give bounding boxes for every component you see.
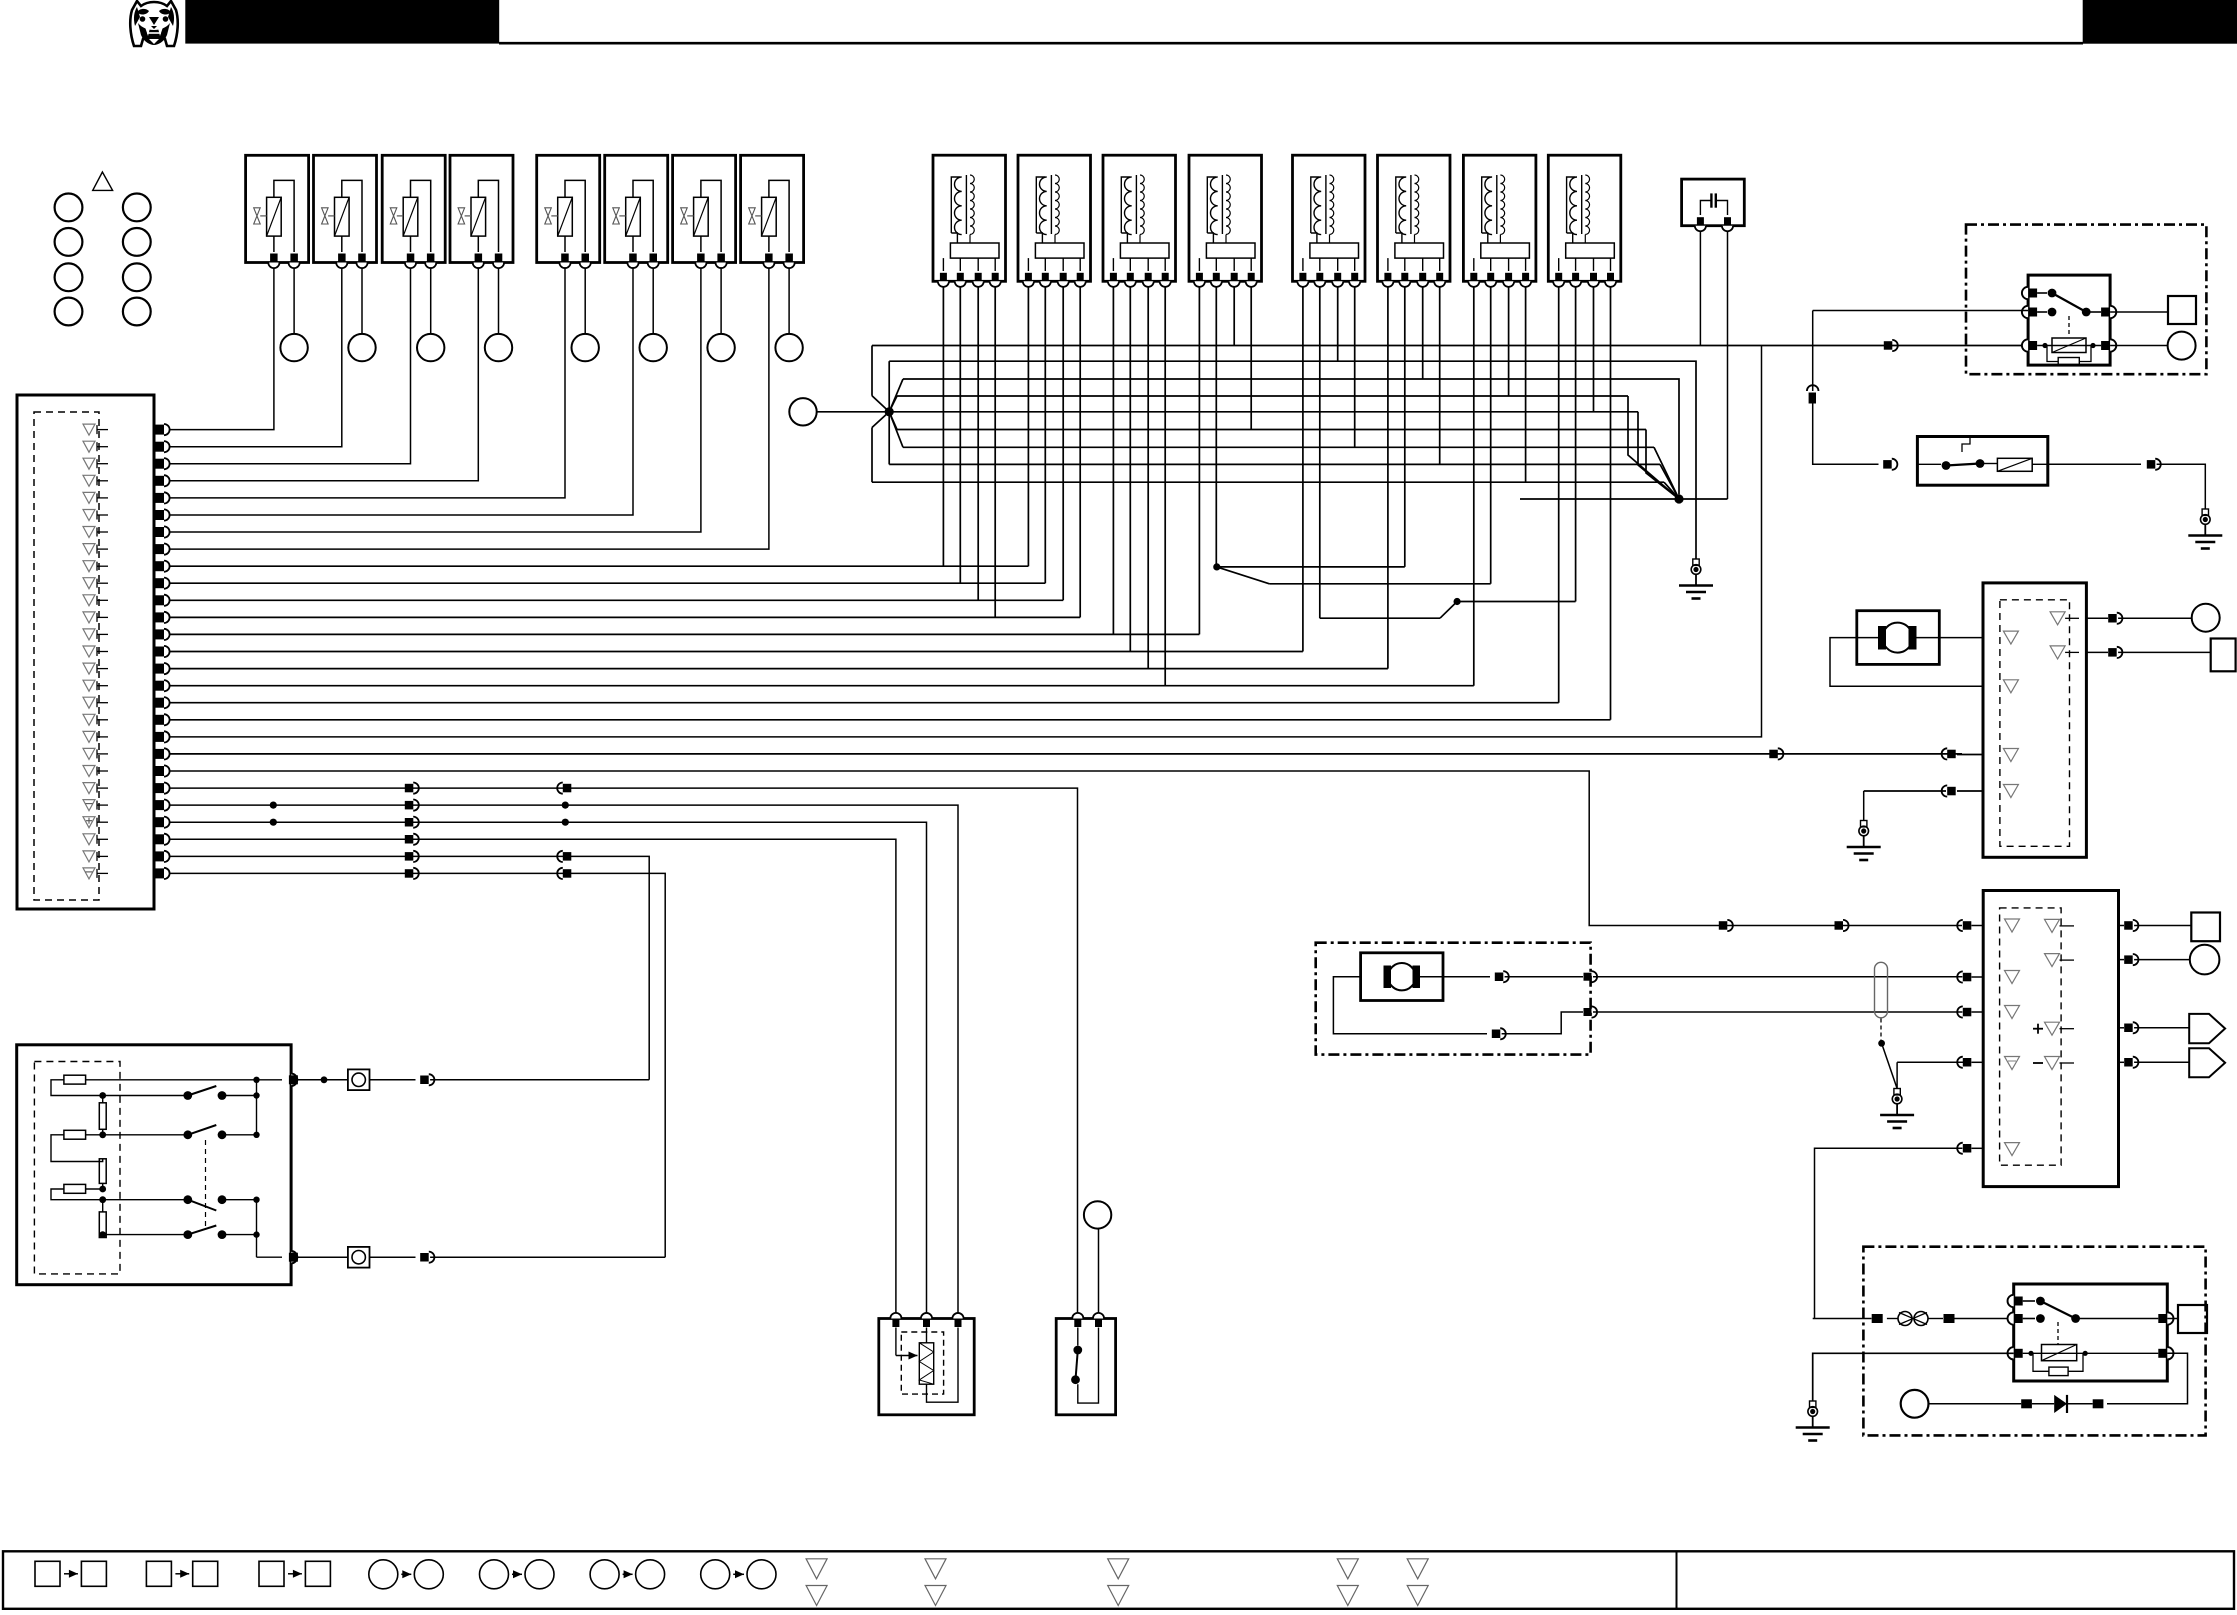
wire switch pack output B [298,1256,348,1258]
fuel injector 3 [382,155,445,268]
wire injector 5 control to ECM pin 5 [170,268,566,498]
fuel injector 8 [741,155,804,268]
fuse symbol [1887,1312,1943,1326]
injector 8 supply splice circle [775,334,802,361]
wire ECM pin 14 to ignition coils [170,287,1303,652]
ECM pin 20 [83,748,170,759]
wire capacitor right pin down [1727,231,1729,499]
legend square pair 2 [146,1561,217,1586]
legend triangle pair 4 [1337,1559,1358,1606]
ignition coil 7 [1463,155,1536,287]
connector inline A1 out2 [2108,648,2117,657]
inline connector square-circle A [348,1069,370,1090]
connector inline row 26 a [405,852,414,861]
wire bus2 to ground G1 [889,361,1696,559]
ECM pin 12 [83,612,170,623]
wire B1 out2 to circle [2119,959,2125,961]
connector inline row 22 a [405,784,414,793]
wire B1 pin4 to ground G3 [1897,1061,1967,1063]
cruise module B1 [1983,891,2118,1187]
wire return jog [1502,1012,1583,1034]
connector at B1 pin4 [1963,1058,1972,1067]
wire bus5 [889,411,1638,413]
wire lamp to switch [1098,1229,1100,1313]
wire ECM pin 24 to purge valve [170,822,927,1313]
pentagon connector b [2189,1048,2225,1077]
star junction A [817,346,903,483]
twisted pair shield capsule [1875,962,1888,1018]
dots row 24 [270,819,277,826]
wire injector 5 supply [584,268,586,334]
ECM pin 21 [83,765,170,776]
wire bus B+ (bus1) [872,345,2028,347]
injector 2 supply splice circle [348,334,375,361]
circle connector mid right [2192,604,2220,632]
wire bus6 [897,429,1646,431]
wire bus3 to star B [903,379,1679,494]
ECM pin 4 [83,475,170,486]
diode D1 [2032,1395,2093,1413]
wire connector to relay K2 feed [1813,404,1879,465]
connector inline row 26 b [563,852,572,861]
fuel injector 7 [673,155,736,268]
connector inline M2 return [1492,1030,1501,1039]
dots row 23 [270,802,277,809]
legend triangle pair 5 [1407,1559,1428,1606]
connector inline K2 output [2147,460,2156,469]
wire injector 6 control to ECM pin 6 [170,268,634,515]
wire bus8 [889,463,1660,465]
fuel injector 2 [314,155,377,268]
wire to horn circle [1929,1403,2022,1405]
connector at B1 pin2 [1963,973,1972,982]
wire injector 7 supply [720,268,722,334]
fuel injector 6 [605,155,668,268]
inline square c [2093,1399,2104,1408]
wire K3 86 to ground G5 [1813,1353,2014,1401]
wire injector 1 control to ECM pin 1 [170,268,274,430]
ground G5 [1810,1401,1816,1407]
horn relay K3 [2008,1284,2174,1381]
wire to module B1 pin3 [1593,1011,1962,1013]
ECM inner dashed boundary [34,412,99,900]
wire feed into horn relay [1813,1318,1872,1320]
wire injector 2 supply [361,268,363,334]
wire injector 4 supply [498,268,500,334]
horn relay dash-dot enclosure [1863,1247,2205,1436]
injector 7 supply splice circle [707,334,734,361]
connector at B1 pin3 [1963,1008,1972,1017]
wire ECM pin 25 to purge valve [170,839,896,1313]
connector pair inline vertical [1807,385,1819,391]
wire ground G2 to A1 pin4 [1864,790,1946,792]
Jaguar growler logo [130,1,177,46]
ECM pin 1 [83,424,170,435]
purge valve V1 [879,1313,974,1415]
ECM pin 18 [83,714,170,725]
ignition coil 2 [1018,155,1091,287]
throttle switch S2 [1056,1313,1115,1415]
connector inline row 24 [405,818,414,827]
fuel injector 1 [246,155,309,268]
title bar left [185,0,499,44]
coil pin stub drops to splice buses [1234,287,1593,482]
main relay module dash-dot enclosure [1966,225,2206,375]
wire output B to ECM row 27 riser [430,1256,665,1258]
wire injector 1 supply [293,268,295,334]
connector inline row 27 b [563,869,572,878]
wire output A to ECM row 26 riser [430,1079,649,1081]
ignition coil 8 [1548,155,1621,287]
wire B1 out1 to square [2119,925,2125,927]
wire ECM pin 9 to ignition coils [170,287,1029,566]
ignition pair link segment A [1213,287,1405,584]
wire injector 8 supply [788,268,790,334]
legend triangle pair 3 [1108,1559,1129,1606]
ignition coil 4 [1189,155,1262,287]
wire M2 return [1333,977,1487,1034]
wire ECM pin 22 to throttle switch [170,788,1078,1313]
wire ECM pin 27 to switch pack [170,873,666,1257]
wire to ground G4 [2157,464,2206,509]
key circle symbol 3 [55,228,83,256]
ignition pair link segment B [1269,287,1490,584]
ECM pin 10 [83,578,170,589]
wire K1 30 to output circle [2110,345,2168,347]
connector inline M2 positive [1495,973,1504,982]
legend square pair 1 [35,1561,106,1586]
wire injector 8 control to ECM pin 8 [170,268,769,549]
connector enclosure edge pin a [1584,973,1592,981]
connector at B1 pin5 [1963,1144,1972,1153]
ECM pin 6 [83,509,170,520]
ignition coil 5 [1293,155,1366,287]
wire K3 30 to horn [2107,1353,2188,1404]
legend circle pair 4 [701,1560,776,1589]
wire K1 87 to output square [2110,311,2168,313]
wire ECM pin 23 to purge valve [170,805,959,1313]
wire ECM pin 20 to DC motor module [170,753,1963,755]
wire ECM pin 13 to ignition coils [170,287,1200,635]
injector 5 supply splice circle [572,334,599,361]
injector 1 supply splice circle [280,334,307,361]
wire ECM pin 18 to ignition coils [170,287,1611,720]
connector inline row 27 a [405,869,414,878]
shield drain dashed [1880,1019,1882,1042]
legend circle pair 3 [590,1560,665,1589]
wire M1 return loop [1830,638,1983,687]
inline square a [1872,1314,1883,1323]
ECM pin 24 [83,817,170,828]
wire M2 positive [1420,976,1490,978]
wire ECM pin 19 feed [170,346,1762,737]
wire injector 3 supply [430,268,432,334]
ECM pin 27 [83,868,170,879]
ECM pin 2 [83,441,170,452]
inline square d [2021,1399,2032,1408]
wire B1 pin5 feed [1815,1148,1963,1318]
wire to connector A [370,1079,416,1081]
connector inline row 25 [405,835,414,844]
connector inline on bus1 [1884,341,1893,350]
wire capacitor left pin to splice bus [1699,231,1701,345]
wire ECM pin 17 to ignition coils [170,287,1559,703]
legend circle pair 2 [480,1560,555,1589]
connector inline row 20 a [1769,750,1778,759]
wire ECM pin 10 to ignition coils [170,287,1046,583]
legend square pair 3 [259,1561,330,1586]
inline connector square-circle B [348,1247,370,1268]
ECM pin 23 [83,800,170,811]
key circle symbol 2 [123,194,151,222]
legend bar [3,1551,2234,1609]
legend divider [1676,1551,1678,1609]
fuel injector 4 [450,155,513,268]
connector inline output A [420,1076,429,1085]
wire bus4 [897,395,1628,397]
wire bus9 [872,481,1664,483]
wire ECM pin 11 to ignition coils [170,287,1064,601]
injector 4 supply splice circle [485,334,512,361]
wire ECM pin 16 to ignition coils [170,287,1474,686]
injector 3 supply splice circle [417,334,444,361]
key circle symbol 7 [55,298,83,326]
connector inline row 22 b [563,784,572,793]
ignition coil 1 [933,155,1006,287]
ECM pin 13 [83,629,170,640]
title bar right [2083,0,2237,44]
ECM pin 19 [83,731,170,742]
output circle top right [2168,332,2196,360]
suppression capacitor C1 [1682,179,1745,231]
wire injector 2 control to ECM pin 2 [170,268,342,447]
ignition coil 3 [1103,155,1176,287]
main relay K1 [2022,275,2116,366]
key circle symbol 5 [55,263,83,291]
wire into A1 pin3 [1957,754,1983,756]
connector inline row 21 b [1835,921,1844,930]
key circle symbol 6 [123,263,151,291]
key triangle symbol [93,172,113,190]
shield drain to ground G3 [1882,1043,1898,1088]
ECM pin 9 [83,561,170,572]
ECM connector block outline [17,395,154,909]
cruise actuator motor enclosure dash-dot [1316,943,1591,1055]
ground G2 [1861,821,1867,827]
wire relay feed from connector stack [1813,310,2028,312]
ignition coil 6 [1378,155,1451,287]
wire to module B1 pin2 [1593,976,1962,978]
idle control motor M1 [1857,611,1940,665]
key circle symbol 1 [55,194,83,222]
connector inline row 23 [405,801,414,810]
wire to connector B [370,1256,416,1258]
header rule [499,42,2083,45]
ECM pin 8 [83,544,170,555]
wire to enclosure edge [1505,976,1583,978]
ECM pin 17 [83,697,170,708]
wire injector 7 control to ECM pin 7 [170,268,701,532]
pedal switch pack S1 [17,1045,298,1285]
wire G2 drop [1863,791,1865,821]
wire ECM pin 15 to ignition coils [170,287,1388,669]
wire ECM pin 21 to actuator module [170,771,1963,926]
connector inline row 21 a [1719,921,1728,930]
wire switch pack output A [298,1079,348,1081]
wire A1 out2 to square connector [2086,651,2108,653]
pentagon connector a [2189,1014,2225,1043]
star junction B [1520,396,1728,504]
ignition pair link segment C [1440,287,1576,618]
wire ECM pin 26 to switch pack [170,856,650,1079]
injector 6 supply splice circle [640,334,667,361]
ECM pin 11 [83,595,170,606]
connector inline A1 out1 [2108,614,2117,623]
ECM pin 15 [83,663,170,674]
wire M1 positive to module [1917,637,1984,639]
key circle symbol 8 [123,298,151,326]
key circle symbol 4 [123,228,151,256]
connector inline row 20 b [1947,750,1956,759]
wire bus7 [903,446,1654,448]
ground G4 [2202,509,2208,515]
wire fuse to relay K3 [1955,1318,2014,1320]
wire B1 out3 to pentagon [2119,1027,2125,1029]
horn circle [1901,1390,1929,1418]
ground G1 [1693,559,1699,565]
square connector horn out [2178,1305,2207,1333]
ECM pin 5 [83,492,170,503]
ECM pin 3 [83,458,170,469]
cruise motor M2 [1361,953,1443,1001]
ECM pin 26 [83,851,170,862]
wire injector 6 supply [652,268,654,334]
ECM pin 7 [83,526,170,537]
wire injector 3 control to ECM pin 3 [170,268,411,464]
ECM pin 16 [83,680,170,691]
output square connector top right [2168,296,2196,324]
wire to circle [2118,617,2192,619]
connector inline relay K2 feed [1883,460,1892,469]
connector enclosure edge pin b [1584,1008,1592,1016]
legend triangle pair 1 [806,1559,827,1606]
fuel injector 5 [537,155,600,268]
connector inline output B [420,1253,429,1262]
ECM pin 22 [83,783,170,794]
wire injector 4 control to ECM pin 4 [170,268,479,481]
connector at B1 pin1 [1963,921,1972,930]
square connector mid right [2211,639,2236,672]
stepper module A1 [1983,583,2086,857]
wire ECM pin 12 to ignition coils [170,287,1081,618]
circle connector lower right [2190,945,2220,975]
legend circle pair 1 [369,1560,444,1589]
wire K2 to ground G4 [2048,463,2141,465]
wire A1 out to circle connector [2086,617,2108,619]
wire K3 87 to square connector [2167,1318,2178,1320]
square connector lower right [2191,913,2220,942]
ground G3 [1894,1089,1900,1095]
ECM pin 25 [83,834,170,845]
inline square b [1944,1314,1955,1323]
warning lamp circle [1084,1201,1111,1228]
ECM pin 14 [83,646,170,657]
relay K2 [1917,437,2047,486]
legend triangle pair 2 [925,1559,946,1606]
wire B1 out4 to pentagon [2119,1061,2125,1063]
ignition pair link segment D [1320,287,1440,618]
splice circle left of star junction A [789,398,816,425]
wire to square [2118,651,2211,653]
connector at A1 pin4 [1947,787,1956,796]
